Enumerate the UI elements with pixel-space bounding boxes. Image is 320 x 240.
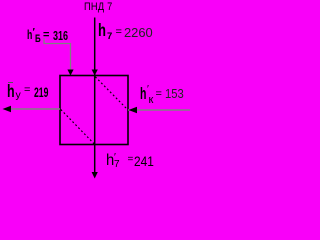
steam arrowhead at box top bbox=[92, 70, 98, 76]
label h'7 = 241 (drain out) bbox=[0, 0, 198, 1]
water outlet line (left, gray) bbox=[4, 108, 60, 110]
condensate inlet arrowhead bbox=[129, 107, 138, 113]
steam line (vertical through box) bbox=[94, 18, 96, 174]
drain-in arrowhead at box top bbox=[67, 70, 73, 76]
label h'Б = 316 (drain from upper heater) bbox=[0, 0, 198, 1]
label h-bar у = 219 (heated water out) bbox=[0, 0, 198, 1]
title ПНД 7 bbox=[0, 0, 198, 1]
label h'к = 153 (main condensate in) bbox=[0, 0, 198, 1]
drain-in leader line (from label 316) bbox=[44, 38, 71, 75]
drain outlet arrowhead (bottom) bbox=[92, 172, 98, 179]
dashed process line D2 (water point to drain point) bbox=[61, 110, 95, 145]
condensate inlet line (right, gray) bbox=[128, 109, 190, 111]
heater box ПНД7 bbox=[60, 76, 128, 145]
dashed process line D1 (steam to condensate point) bbox=[95, 77, 126, 109]
water outlet arrowhead (left) bbox=[3, 106, 12, 112]
label h7 = 2260 (extraction steam in) bbox=[0, 0, 198, 1]
